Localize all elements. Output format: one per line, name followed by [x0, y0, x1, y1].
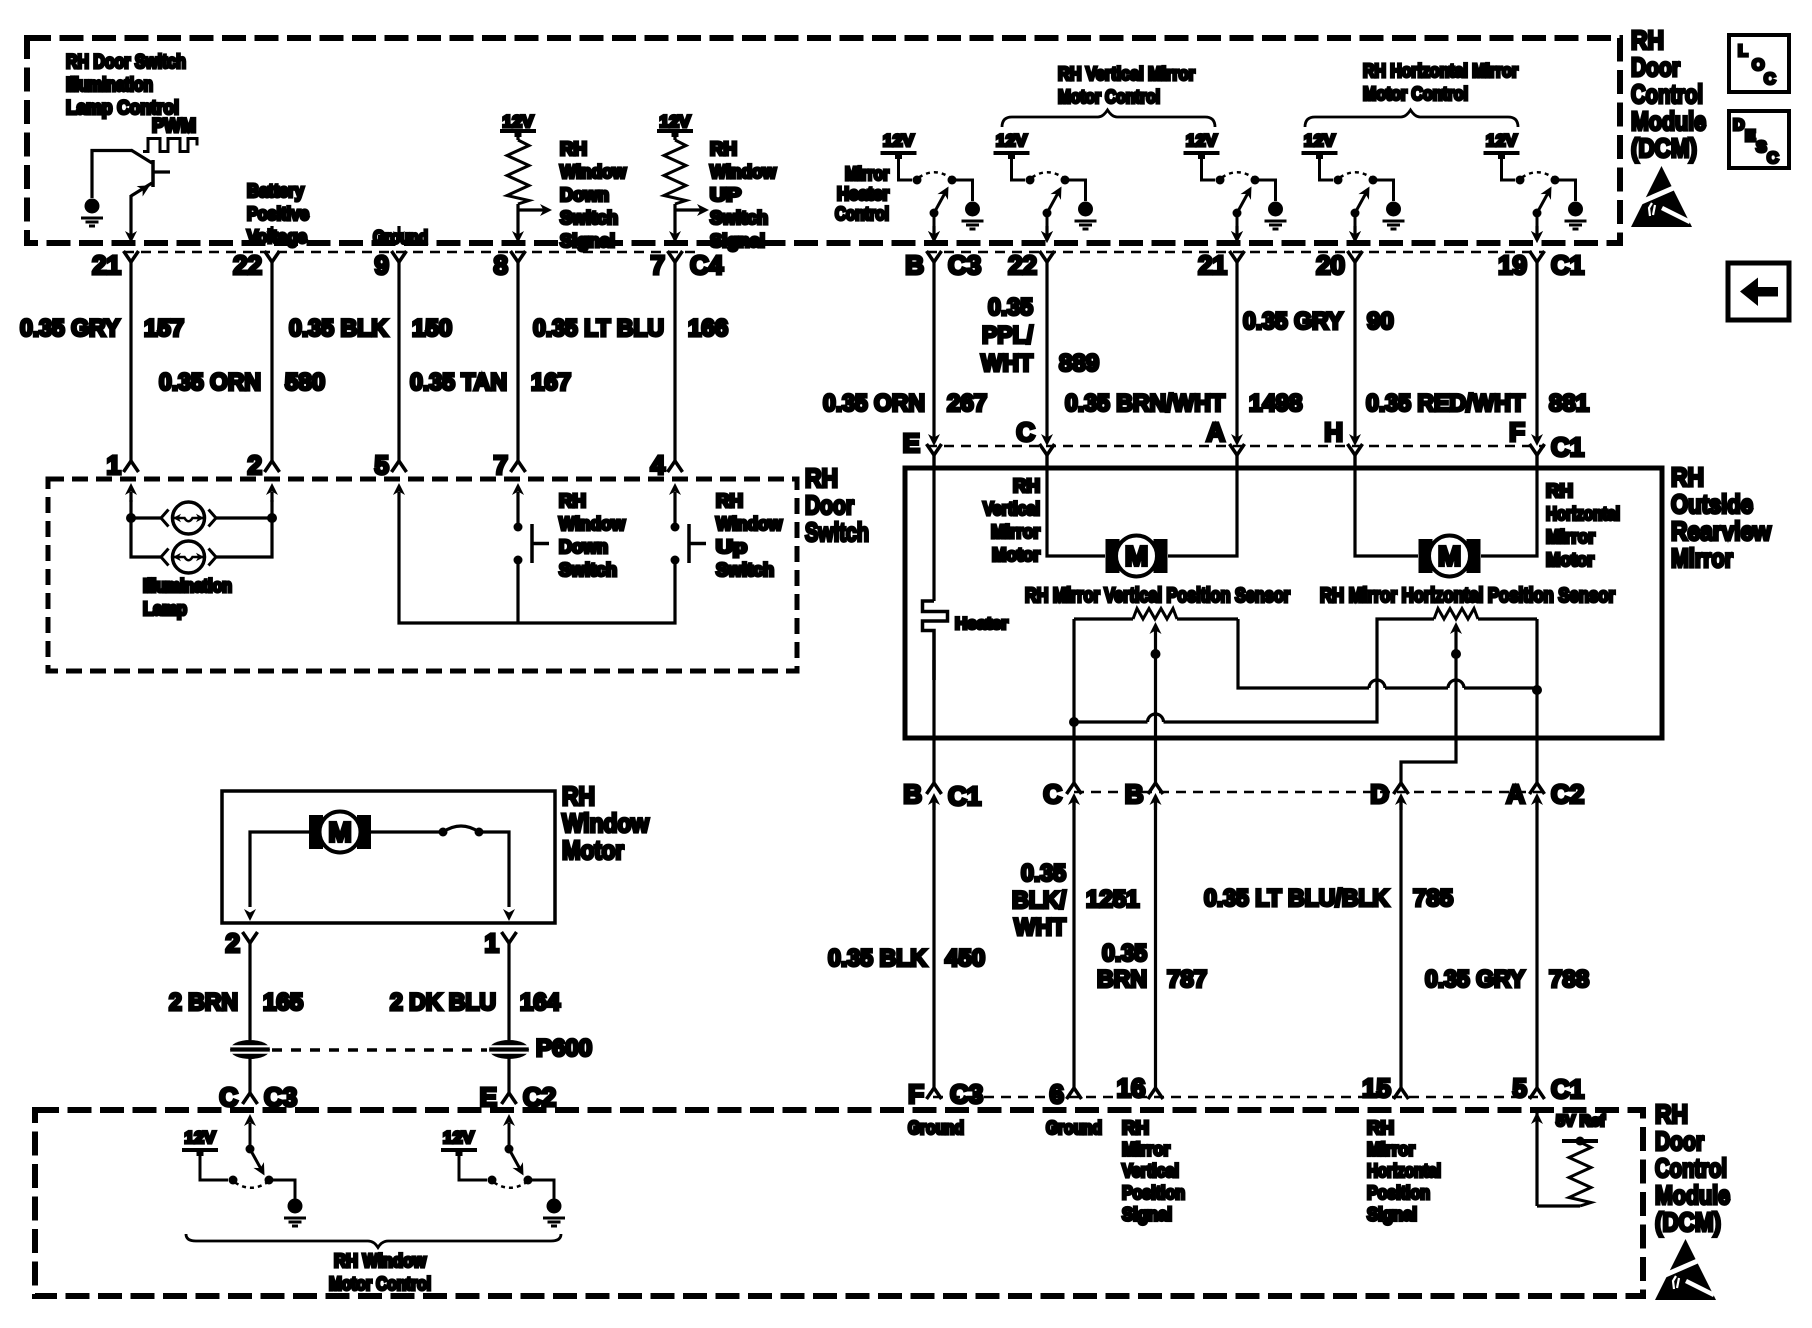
svg-text:9: 9: [375, 250, 389, 280]
wire heater to pin B: [932, 660, 935, 783]
svg-text:580: 580: [285, 369, 325, 396]
svg-text:RH Door Switch: RH Door Switch: [66, 52, 186, 73]
wire pin C riser: [1072, 619, 1075, 783]
svg-text:Mirror: Mirror: [845, 164, 889, 184]
svg-text:C3: C3: [950, 1079, 983, 1109]
svg-text:Control: Control: [1631, 79, 1703, 109]
wire circuit 157 0.35 GRY (x=131): [129, 262, 132, 461]
svg-text:Heater: Heater: [837, 184, 889, 204]
svg-text:0.35 ORN: 0.35 ORN: [159, 369, 261, 396]
svg-text:0.35 BRN/WHT: 0.35 BRN/WHT: [1065, 390, 1225, 417]
svg-text:Illumination: Illumination: [66, 75, 153, 96]
connector C3/C1 dashed line (right): [927, 251, 1544, 253]
connector pin F (mirror top, x=1537): [1530, 434, 1545, 470]
svg-text:D: D: [1370, 779, 1389, 809]
svg-text:787: 787: [1167, 966, 1207, 993]
connector pin C (C3) window switch: [243, 1093, 258, 1104]
svg-text:C1: C1: [1551, 250, 1584, 280]
svg-text:RH: RH: [1013, 476, 1040, 496]
connector pin C (mirror top, x=1047): [1040, 434, 1055, 470]
svg-text:0.35 TAN: 0.35 TAN: [410, 369, 507, 396]
svg-text:Motor: Motor: [1546, 550, 1594, 570]
wire circuit 90 0.35 GRY: [1353, 262, 1356, 441]
resistor (switch signal pullup at x=675): [673, 134, 676, 140]
5V Ref pullup: pin 5 wire and arrow: [1531, 1112, 1543, 1206]
connector C3/C1 dashed line (bottom DCM): [933, 1096, 1545, 1098]
illumination lamp 1: [161, 502, 216, 534]
svg-text:O: O: [1752, 57, 1764, 74]
LOC reference box: [1729, 35, 1789, 92]
svg-text:Motor Control: Motor Control: [329, 1274, 431, 1294]
connector pin A (mirror top, x=1237): [1230, 434, 1245, 470]
resistor (switch signal pullup at x=518): [516, 134, 519, 140]
svg-text:166: 166: [688, 315, 728, 342]
svg-text:C2: C2: [1551, 779, 1584, 809]
horizontal sensor wiper arrow: [1401, 622, 1462, 783]
svg-text:Window: Window: [716, 514, 783, 534]
svg-text:167: 167: [531, 369, 571, 396]
svg-text:22: 22: [1008, 250, 1037, 280]
vertical mirror down driver switch: [1184, 153, 1287, 243]
connector pin F (bottom DCM, x=934): [927, 1088, 942, 1099]
svg-text:2 BRN: 2 BRN: [169, 989, 238, 1016]
svg-text:Down: Down: [559, 537, 608, 557]
svg-text:12V: 12V: [883, 131, 915, 150]
svg-text:Illumination: Illumination: [143, 576, 232, 596]
hop over wiper at 1155: [1148, 714, 1164, 722]
vertical mirror up driver switch: [994, 153, 1097, 243]
svg-text:(DCM): (DCM): [1631, 133, 1697, 163]
brace RH Vertical Mirror Motor Control: [1002, 110, 1215, 127]
svg-text:RH: RH: [1367, 1118, 1394, 1138]
RH window down switch (momentary): [514, 502, 550, 565]
svg-text:12V: 12V: [1486, 131, 1518, 150]
connector pin E (mirror top, x=934): [927, 434, 942, 470]
svg-text:RH: RH: [1631, 25, 1664, 55]
svg-text:WHT: WHT: [981, 350, 1033, 377]
svg-text:C1: C1: [948, 781, 981, 811]
wire circuit 167 0.35 TAN (x=518): [516, 262, 519, 461]
connector pin 21 (DCM top, x=1237): [1230, 226, 1245, 262]
connector pin 5 (bottom DCM, x=1537): [1530, 1088, 1545, 1099]
wire pin C to vertical motor: [1047, 454, 1105, 556]
svg-text:4: 4: [651, 450, 666, 480]
svg-text:Window: Window: [710, 162, 777, 182]
svg-text:Mirror: Mirror: [1367, 1140, 1415, 1160]
svg-text:2: 2: [226, 928, 240, 958]
connector pin 7 (DCM top, x=675): [668, 231, 683, 262]
svg-text:157: 157: [144, 315, 184, 342]
connector pin 1 (RH Door Switch, x=131): [124, 461, 139, 502]
connector pin 7 (RH Door Switch, x=518): [511, 461, 526, 502]
svg-text:12V: 12V: [1186, 131, 1218, 150]
window motor down driver switch: [441, 1114, 565, 1226]
svg-text:BRN: BRN: [1097, 966, 1147, 993]
vertical position sensor resistor: [1074, 609, 1238, 620]
svg-text:Mirror: Mirror: [1122, 1140, 1170, 1160]
svg-text:UP: UP: [710, 185, 741, 205]
svg-text:Voltage: Voltage: [247, 227, 307, 247]
connector pin H (mirror top, x=1355): [1348, 434, 1363, 470]
svg-text:Motor Control: Motor Control: [1363, 84, 1468, 104]
svg-text:Window: Window: [560, 162, 627, 182]
svg-text:0.35 GRY: 0.35 GRY: [20, 315, 120, 342]
svg-text:Motor: Motor: [562, 835, 624, 865]
svg-text:19: 19: [1498, 250, 1527, 280]
svg-text:RH: RH: [716, 491, 743, 511]
connector pin 5 (RH Door Switch, x=399): [392, 461, 407, 502]
svg-text:Control: Control: [1655, 1153, 1727, 1183]
svg-text:S: S: [1756, 139, 1767, 156]
svg-text:Down: Down: [560, 185, 609, 205]
brace RH Horizontal Mirror Motor Control: [1305, 110, 1518, 127]
inline connector P600 left half: [230, 1040, 270, 1059]
svg-text:C3: C3: [948, 250, 981, 280]
connector C4 dashed line (left): [124, 251, 700, 253]
wire vertical motor to pin A: [1168, 454, 1237, 556]
svg-text:Door: Door: [805, 490, 854, 520]
svg-text:881: 881: [1549, 390, 1589, 417]
wire circuit 580 0.35 ORN (x=272): [270, 262, 273, 461]
RH Door Switch dashed box: [48, 479, 797, 671]
svg-text:1251: 1251: [1086, 886, 1139, 913]
back arrow navigation box: [1728, 263, 1789, 320]
svg-text:C: C: [1764, 71, 1776, 88]
connector pin 6 (bottom DCM, x=1074): [1067, 1088, 1082, 1099]
svg-text:12V: 12V: [660, 112, 692, 131]
wire circuit 785 0.35 LT BLU/BLK: [1399, 800, 1402, 1088]
connector pin 15 (bottom DCM, x=1401): [1394, 1088, 1409, 1099]
svg-text:0.35: 0.35: [988, 294, 1033, 321]
svg-text:RH: RH: [562, 781, 595, 811]
connector pin A (mirror bottom, x=1537): [1530, 783, 1545, 810]
svg-text:785: 785: [1413, 885, 1453, 912]
svg-text:267: 267: [947, 390, 987, 417]
12V supply (switch signal pullup at x=518): [500, 131, 536, 137]
svg-text:RH: RH: [1655, 1099, 1688, 1129]
svg-text:1498: 1498: [1249, 390, 1302, 417]
svg-text:Position: Position: [1367, 1183, 1430, 1203]
wire pin H to horizontal motor: [1355, 454, 1418, 556]
RH Outside Rearview Mirror box: [905, 468, 1662, 738]
svg-text:F: F: [1509, 417, 1525, 447]
wire circuit 150 0.35 BLK (x=399): [397, 262, 400, 461]
svg-text:Mirror: Mirror: [991, 522, 1040, 542]
wire motor terminal 2: [250, 832, 309, 907]
12V supply (switch signal pullup at x=675): [657, 131, 693, 137]
svg-text:Door: Door: [1631, 52, 1680, 82]
svg-text:16: 16: [1117, 1073, 1146, 1103]
svg-text:PPL/: PPL/: [982, 322, 1033, 349]
junction dot lamp 1 right: [267, 513, 277, 523]
svg-text:RH: RH: [560, 139, 587, 159]
junction dot bus to pin A wire: [1532, 685, 1542, 695]
svg-text:12V: 12V: [443, 1128, 475, 1147]
svg-text:A: A: [1506, 779, 1525, 809]
svg-text:22: 22: [233, 250, 262, 280]
wire circuit 889 0.35 PPL/WHT: [1045, 262, 1048, 441]
svg-text:RH Window: RH Window: [334, 1251, 427, 1271]
svg-text:0.35 GRY: 0.35 GRY: [1243, 308, 1343, 335]
svg-text:Window: Window: [562, 808, 650, 838]
svg-text:Signal: Signal: [560, 231, 615, 251]
svg-text:0.35: 0.35: [1021, 860, 1066, 887]
svg-text:Position: Position: [1122, 1183, 1185, 1203]
svg-text:0.35: 0.35: [1102, 940, 1147, 967]
svg-text:0.35 GRY: 0.35 GRY: [1425, 966, 1525, 993]
svg-text:Heater: Heater: [955, 614, 1008, 633]
svg-text:Motor Control: Motor Control: [1058, 87, 1160, 107]
wire circuit 788 0.35 GRY: [1535, 800, 1538, 1088]
svg-text:Ground: Ground: [908, 1118, 964, 1138]
wire pin E to heater: [932, 454, 935, 601]
svg-text:Module: Module: [1655, 1180, 1730, 1210]
svg-text:Vertical: Vertical: [1122, 1161, 1179, 1181]
wire transistor collector to ground: [92, 151, 132, 199]
svg-text:Switch: Switch: [805, 517, 869, 547]
horizontal position sensor resistor: [1434, 609, 1537, 620]
svg-text:Positive: Positive: [247, 204, 309, 224]
svg-text:7: 7: [494, 450, 508, 480]
svg-text:450: 450: [945, 945, 985, 972]
RH Window Motor box: [222, 791, 555, 923]
wire circuit 166 0.35 LT BLU (x=675): [673, 262, 676, 461]
svg-text:0.35 ORN: 0.35 ORN: [823, 390, 925, 417]
svg-text:Rearview: Rearview: [1671, 516, 1772, 546]
wire motor terminal 1: [479, 832, 509, 907]
RH Door Control Module (DCM) top dashed box: [27, 38, 1620, 243]
svg-text:164: 164: [520, 989, 561, 1016]
svg-text:RH Horizontal Mirror: RH Horizontal Mirror: [1363, 61, 1518, 81]
horizontal mirror right driver switch: [1484, 153, 1587, 243]
svg-text:Signal: Signal: [710, 231, 765, 251]
svg-text:L: L: [1738, 43, 1748, 60]
svg-text:Signal: Signal: [1122, 1204, 1172, 1224]
svg-text:E: E: [903, 428, 920, 458]
wire down switch to bus: [516, 560, 519, 623]
svg-text:0.35 BLK: 0.35 BLK: [289, 315, 389, 342]
wire transistor emitter to pin 21: [129, 195, 132, 236]
svg-text:E: E: [1745, 128, 1756, 145]
svg-text:Horizontal: Horizontal: [1546, 504, 1620, 524]
svg-text:Outside: Outside: [1671, 489, 1753, 519]
svg-text:Mirror: Mirror: [1671, 543, 1733, 573]
connector pin 20 (DCM top, x=1355): [1348, 226, 1363, 262]
svg-text:Ground: Ground: [1046, 1118, 1102, 1138]
svg-text:H: H: [1324, 417, 1343, 447]
horizontal mirror motor M: [1419, 536, 1481, 577]
svg-text:8: 8: [494, 250, 508, 280]
ESD sensitive device symbol (bottom): [1655, 1239, 1716, 1300]
svg-text:6: 6: [1050, 1079, 1064, 1109]
wire circuit 165 2 BRN: [248, 943, 251, 1040]
wire circuit 267 0.35 ORN: [932, 262, 935, 441]
junction dot lamp 1 left: [126, 513, 136, 523]
svg-text:Lamp: Lamp: [143, 599, 187, 619]
svg-text:P600: P600: [536, 1035, 592, 1062]
brace RH Window Motor Control: [186, 1234, 561, 1248]
svg-text:PWM: PWM: [152, 116, 196, 137]
svg-text:165: 165: [263, 989, 303, 1016]
connector pin 21 (DCM top, x=131): [124, 231, 139, 262]
svg-text:0.35 LT BLU: 0.35 LT BLU: [533, 315, 664, 342]
hop over wiper at 1456: [1448, 680, 1464, 688]
wire pin C junction to horizontal sensor left: [1074, 619, 1434, 722]
connector pin B (mirror bottom, x=1155.5): [1148, 783, 1163, 810]
svg-text:21: 21: [92, 250, 121, 280]
RH Door Control Module (DCM) bottom dashed box: [35, 1110, 1643, 1296]
svg-text:5: 5: [1513, 1073, 1527, 1103]
svg-text:0.35 BLK: 0.35 BLK: [828, 945, 928, 972]
connector pin 8 (DCM top, x=518): [511, 231, 526, 262]
svg-text:Motor: Motor: [992, 545, 1040, 565]
wire circuit 164 2 DK BLU: [507, 943, 510, 1040]
connector pin 22 (DCM top, x=1047): [1040, 226, 1055, 262]
svg-text:Switch: Switch: [560, 208, 618, 228]
svg-text:15: 15: [1362, 1073, 1391, 1103]
5V Ref resistor: [1537, 1142, 1591, 1206]
svg-text:12V: 12V: [996, 131, 1028, 150]
svg-text:21: 21: [1198, 250, 1227, 280]
svg-text:Switch: Switch: [559, 560, 617, 580]
connector pin E (C2) window switch: [502, 1093, 517, 1104]
svg-text:Vertical: Vertical: [983, 499, 1040, 519]
svg-text:C1: C1: [1551, 1074, 1584, 1104]
svg-text:Signal: Signal: [1367, 1204, 1417, 1224]
svg-text:RH: RH: [1546, 481, 1573, 501]
arrow signal tap right at x=675: [675, 208, 702, 211]
DESC reference box: [1729, 111, 1789, 168]
connector pin 4 (RH Door Switch, x=675): [668, 461, 683, 502]
svg-text:788: 788: [1549, 966, 1589, 993]
svg-text:12V: 12V: [1304, 131, 1336, 150]
RH window up switch (momentary): [671, 502, 707, 565]
connector pin D (mirror bottom, x=1401): [1394, 783, 1409, 810]
svg-text:BLK/: BLK/: [1012, 887, 1066, 914]
svg-text:RH Mirror Vertical Position Se: RH Mirror Vertical Position Sensor: [1025, 585, 1290, 607]
connector pin C (mirror bottom, x=1074): [1067, 783, 1082, 810]
svg-text:Control: Control: [835, 204, 889, 224]
svg-text:1: 1: [485, 928, 499, 958]
svg-text:RH Vertical Mirror: RH Vertical Mirror: [1058, 64, 1195, 84]
svg-text:(DCM): (DCM): [1655, 1207, 1721, 1237]
connector pin 9 (DCM top, x=399): [392, 226, 407, 262]
svg-text:RH: RH: [710, 139, 737, 159]
junction dot pin C riser: [1069, 717, 1079, 727]
svg-text:A: A: [1206, 417, 1225, 447]
svg-text:Mirror: Mirror: [1546, 527, 1595, 547]
svg-text:RH: RH: [805, 463, 838, 493]
wire circuit 1498 0.35 BRN/WHT: [1235, 262, 1238, 441]
svg-text:20: 20: [1316, 250, 1345, 280]
connector pin 22 (DCM top, x=272): [265, 226, 280, 262]
svg-text:1: 1: [107, 450, 121, 480]
svg-text:Switch: Switch: [716, 560, 774, 580]
wire P600 to pin E: [507, 1058, 510, 1093]
svg-text:889: 889: [1059, 350, 1099, 377]
svg-text:Up: Up: [716, 537, 747, 557]
5V Ref supply bar: [1562, 1137, 1598, 1146]
connector pin 2 (RH Door Switch, x=272): [265, 461, 280, 502]
window motor M1: [309, 812, 371, 853]
svg-text:150: 150: [412, 315, 452, 342]
svg-text:0.35 LT BLU/BLK: 0.35 LT BLU/BLK: [1204, 885, 1390, 912]
vertical sensor wiper arrow: [1150, 622, 1162, 783]
svg-text:5: 5: [375, 450, 389, 480]
svg-text:C1: C1: [1551, 432, 1584, 462]
svg-text:B: B: [1125, 779, 1144, 809]
svg-text:0.35 RED/WHT: 0.35 RED/WHT: [1366, 390, 1525, 417]
svg-text:Battery: Battery: [247, 181, 304, 201]
heater element: [923, 601, 948, 680]
svg-text:7: 7: [651, 250, 665, 280]
connector pin 1 (window motor, x=509): [502, 909, 517, 943]
wire circuit 881 0.35 RED/WHT: [1535, 262, 1538, 441]
svg-text:F: F: [908, 1079, 924, 1109]
illumination lamp 2: [161, 541, 216, 573]
svg-text:WHT: WHT: [1014, 914, 1066, 941]
connector pin B (mirror bottom, x=934): [927, 783, 942, 810]
ground (transistor collector): [81, 199, 103, 227]
wire P600 to pin C: [248, 1058, 251, 1093]
inline connector P600 right half: [489, 1040, 529, 1059]
wire horizontal sensor right to pin A: [1535, 619, 1538, 783]
svg-text:Door: Door: [1655, 1126, 1704, 1156]
svg-text:12V: 12V: [185, 1128, 217, 1147]
svg-text:C: C: [1767, 150, 1779, 167]
svg-text:2: 2: [248, 450, 262, 480]
svg-text:2 DK BLU: 2 DK BLU: [390, 989, 496, 1016]
wire switch common bus to pin 5: [399, 502, 675, 623]
window motor up driver switch: [182, 1114, 306, 1226]
svg-text:RH: RH: [1122, 1118, 1149, 1138]
wire lamp return right: [216, 500, 272, 557]
connector C1/C2 dashed line (mirror bottom): [1074, 791, 1544, 793]
circuit breaker switch in motor: [371, 826, 484, 837]
svg-text:C4: C4: [690, 250, 724, 280]
svg-text:Horizontal: Horizontal: [1367, 1161, 1441, 1181]
connector pin 16 (bottom DCM, x=1155.5): [1148, 1088, 1163, 1099]
svg-text:Window: Window: [559, 514, 626, 534]
vertical mirror motor M: [1106, 536, 1168, 577]
wire horizontal motor to pin F: [1481, 454, 1537, 556]
connector pin B (DCM top, x=934): [927, 226, 942, 262]
svg-text:12V: 12V: [503, 112, 535, 131]
wire circuit 1251 0.35 BLK/WHT: [1072, 800, 1075, 1088]
svg-text:C: C: [1043, 779, 1062, 809]
wire circuit 787 0.35 BRN: [1154, 800, 1157, 1088]
P600 dashed link: [272, 1048, 487, 1052]
svg-text:M: M: [328, 817, 351, 848]
horizontal mirror left driver switch: [1302, 153, 1405, 243]
svg-text:90: 90: [1367, 308, 1394, 335]
svg-text:B: B: [903, 779, 922, 809]
connector pin 19 (DCM top, x=1537): [1530, 226, 1545, 262]
svg-text:B: B: [905, 250, 924, 280]
svg-text:C: C: [1016, 417, 1035, 447]
mirror heater control switch: [881, 153, 984, 243]
svg-text:RH: RH: [559, 491, 586, 511]
svg-text:5V Ref: 5V Ref: [1556, 1113, 1606, 1130]
svg-text:RH: RH: [1671, 462, 1704, 492]
wire lamp feed left: [131, 500, 161, 557]
svg-text:Module: Module: [1631, 106, 1706, 136]
hop over riser at 1377: [1369, 680, 1385, 688]
connector pin 2 (window motor, x=250): [243, 909, 258, 943]
wire vertical sensor right to bus: [1238, 619, 1537, 688]
ESD sensitive device symbol (top): [1631, 166, 1692, 227]
svg-text:D: D: [1733, 117, 1745, 134]
